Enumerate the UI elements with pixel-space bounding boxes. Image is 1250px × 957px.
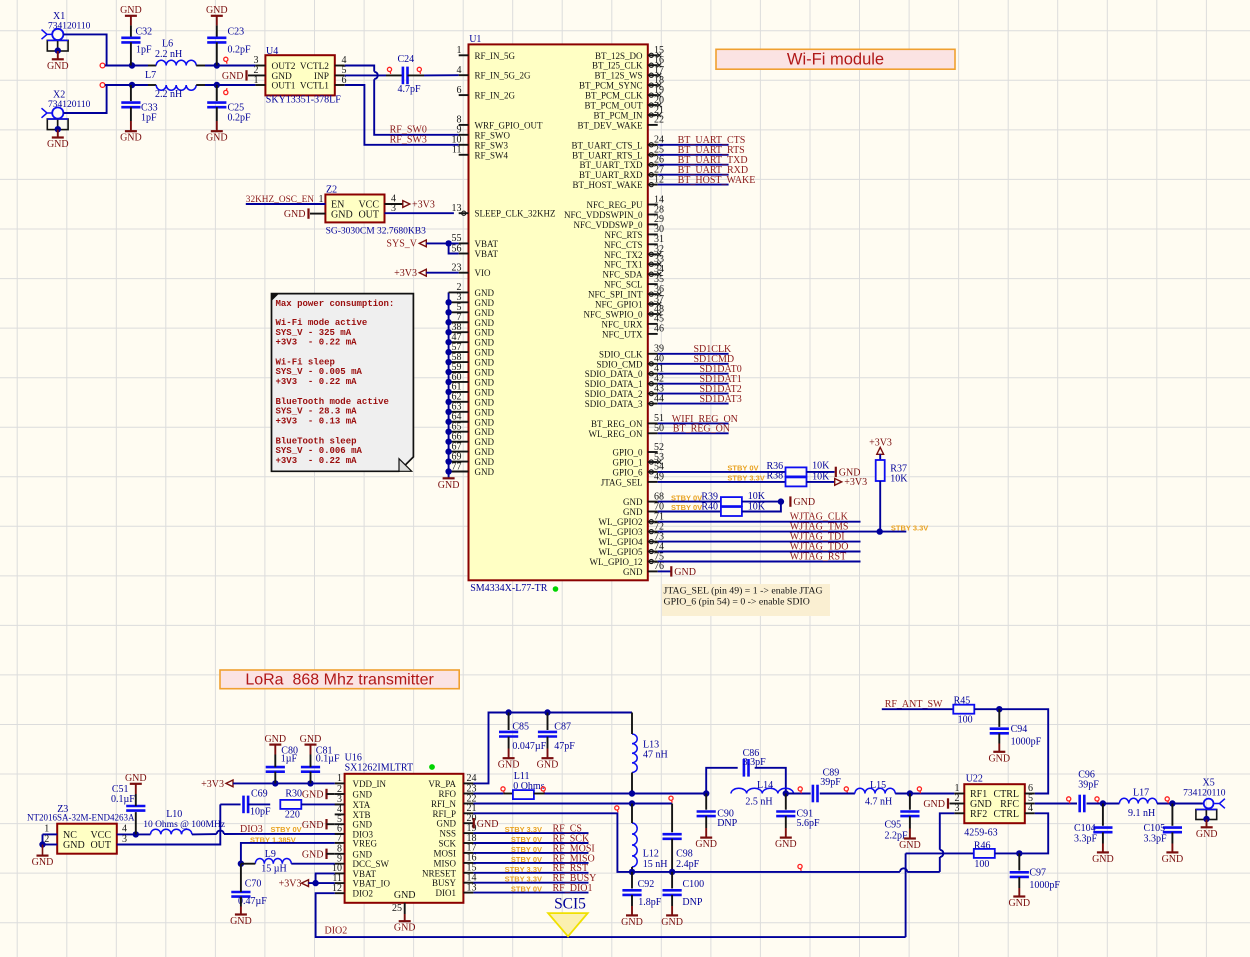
svg-text:WJTAG_RST: WJTAG_RST (790, 552, 846, 563)
capacitor C80 (266, 746, 298, 772)
svg-text:4: 4 (1028, 803, 1033, 814)
U22 pin 6 stub (1025, 783, 1035, 794)
svg-text:DCC_SW: DCC_SW (353, 859, 390, 869)
svg-text:GND: GND (120, 133, 142, 144)
no-ERC mark C105 (1165, 797, 1169, 803)
wire C24 to U1 pin4 (424, 74, 459, 76)
lead C25 bottom (216, 107, 218, 131)
lead C95 top (909, 794, 911, 810)
svg-text:SDIO_DATA_2: SDIO_DATA_2 (585, 389, 643, 399)
junction C95 (907, 790, 913, 796)
junction C87 (544, 709, 550, 715)
no-ERC mark RFI_P elbow (615, 806, 619, 812)
ground below U1 GND bus (438, 478, 460, 491)
svg-text:GND: GND (1008, 898, 1030, 909)
U1 pin 70 GND (623, 501, 664, 517)
ground below C104 (1092, 852, 1114, 865)
Wi-Fi module U1 (469, 34, 648, 594)
wire RFO to L11 (473, 793, 503, 795)
svg-text:10 Ohms @ 100MHz: 10 Ohms @ 100MHz (143, 820, 225, 830)
ground below C91 (775, 838, 797, 851)
resistor R40 (701, 501, 765, 516)
junction C25/rail2 (214, 82, 220, 88)
U1 pin 23 VIO (452, 263, 491, 279)
svg-text:C94: C94 (1011, 724, 1028, 735)
svg-text:GND: GND (284, 209, 306, 220)
U22 pin 5 stub (1025, 793, 1035, 804)
U1 pin 73 WL_GPIO4 (599, 531, 665, 547)
svg-text:+3V3 - 0.13 mA: +3V3 - 0.13 mA (276, 417, 358, 427)
svg-text:BT_DEV_WAKE: BT_DEV_WAKE (578, 120, 643, 130)
svg-text:VREG: VREG (353, 838, 378, 848)
svg-text:GND: GND (899, 840, 921, 851)
lead C24 left (386, 74, 403, 76)
U1 pin 32 NFC_TX2 (604, 244, 664, 260)
U1 pin 55 VBAT (452, 233, 499, 249)
svg-text:NT2016SA-32M-END4263A: NT2016SA-32M-END4263A (27, 813, 135, 823)
svg-text:BT_12S_DO: BT_12S_DO (595, 51, 643, 61)
lead L6 left (148, 65, 156, 67)
wire VCTL2 to RF_SW0 (345, 66, 374, 72)
wire U4 INP to C24 (345, 74, 386, 76)
svg-text:BT_UART_RTS_L: BT_UART_RTS_L (572, 150, 642, 160)
svg-text:NFC_TX1: NFC_TX1 (604, 260, 643, 270)
svg-text:WL_GPIO2: WL_GPIO2 (599, 517, 643, 527)
svg-text:GND: GND (353, 820, 373, 830)
wire JTAG_SEL to R38 (658, 481, 786, 483)
svg-text:BT_PCM_IN: BT_PCM_IN (593, 111, 643, 121)
svg-text:NFC_SDA: NFC_SDA (602, 270, 643, 280)
svg-text:GND: GND (1196, 829, 1218, 840)
inductor L17 (1119, 788, 1157, 819)
wire net SD1DAT3 (658, 403, 729, 405)
U1 pin 35 NFC_SCL (604, 274, 664, 290)
lead L12 bottom (631, 867, 633, 872)
wire DIO3 to U16 (224, 833, 345, 835)
svg-text:C32: C32 (136, 27, 153, 38)
ground at U16 pin5 (302, 819, 327, 831)
Z3 pin 3 wire (117, 804, 221, 845)
ground below C94 (988, 752, 1010, 765)
wire R30 to XTA (301, 803, 344, 805)
svg-text:3: 3 (955, 803, 960, 814)
svg-text:WL_GPIO5: WL_GPIO5 (599, 547, 643, 557)
capacitor C89 (813, 768, 841, 803)
wire L9 to DCC_SW (291, 863, 334, 865)
svg-text:BT_12S_WS: BT_12S_WS (594, 71, 642, 81)
svg-text:WL_GPIO_12: WL_GPIO_12 (590, 557, 643, 567)
ground below U16 (394, 921, 416, 934)
svg-text:GND: GND (475, 328, 495, 338)
ground below C25 (206, 131, 228, 144)
svg-text:GND: GND (988, 753, 1010, 764)
ground at U16 pin 20 (474, 818, 499, 830)
svg-text:BUSY: BUSY (432, 878, 457, 888)
lead C90 top (705, 794, 707, 810)
U1 pin 4 RF_IN_5G_2G (457, 65, 532, 81)
svg-text:OUT: OUT (90, 840, 111, 851)
wire L14 node to C89 (786, 793, 811, 795)
U1 pin 46 NFC_UTX (602, 324, 664, 340)
capacitor C95 (885, 812, 920, 842)
svg-text:BT_REG_ON: BT_REG_ON (591, 419, 643, 429)
svg-text:GND: GND (1092, 854, 1114, 865)
inductor L15 (855, 780, 895, 807)
wire VR_PA rail (473, 713, 632, 784)
ground below C95 (899, 839, 921, 852)
oscillator Z2 (325, 185, 426, 237)
resistor L11 (0 Ohms) (513, 771, 545, 799)
U1 pin 29 NFC_VDDSWP_0 (573, 214, 664, 230)
wire R45 to U22 pin6 (974, 709, 1048, 793)
capacitor C81 (301, 746, 340, 772)
svg-text:R30: R30 (285, 788, 302, 799)
wire X1 to RF rail (63, 34, 106, 65)
junction L12 bottom (629, 869, 635, 875)
svg-text:GND: GND (695, 839, 717, 850)
svg-text:NFC_SPI_INT: NFC_SPI_INT (588, 290, 643, 300)
capacitor C100 (663, 879, 705, 908)
U1 pin 31 NFC_CTS (604, 234, 664, 250)
svg-text:RFI_P: RFI_P (432, 809, 456, 819)
resistor R38 (767, 471, 831, 487)
ground at R39/R40 (790, 496, 815, 508)
junction C51 (133, 831, 139, 837)
svg-text:GND: GND (394, 890, 416, 901)
wire net WJTAG_TDI (658, 541, 861, 543)
U16 right pins 24-13 (422, 773, 477, 898)
U22 pin 3 stub (954, 803, 964, 814)
U1 left GND bus wire (448, 292, 450, 478)
svg-text:BT_UART_TXD: BT_UART_TXD (580, 160, 643, 170)
ground below C100 (661, 915, 683, 928)
svg-text:GND: GND (475, 318, 495, 328)
svg-text:+3V3 - 0.22 mA: +3V3 - 0.22 mA (276, 338, 358, 348)
capacitor C94 (990, 724, 1042, 748)
wire +3V3 to VIO (426, 272, 458, 274)
svg-text:JTAG_SEL (pin 49) = 1 -> enabl: JTAG_SEL (pin 49) = 1 -> enable JTAG (664, 585, 823, 596)
svg-text:GND: GND (475, 457, 495, 467)
lead C95 bottom (909, 816, 911, 838)
svg-text:GND: GND (475, 427, 495, 437)
net label SYS_V (386, 239, 426, 250)
lead L13 bottom (631, 773, 633, 794)
svg-text:+3V3: +3V3 (201, 779, 224, 790)
U1 pin 74 WL_GPIO5 (599, 541, 665, 557)
wire net SD1CMD (658, 363, 729, 365)
U1 pin 39 SDIO_CLK (599, 344, 664, 360)
inductor L14 (731, 780, 794, 807)
wire +3V3 to VBAT_IO (309, 882, 335, 884)
U1 pin 15 BT_12S_DO (595, 45, 664, 61)
capacitor C90 (697, 808, 738, 829)
lead C92 top (631, 872, 633, 889)
svg-text:NFC_TX2: NFC_TX2 (604, 250, 643, 260)
ground at X5 (1196, 827, 1218, 840)
lead C105 top (1171, 804, 1173, 826)
wire X2 to RF rail 2 (63, 85, 106, 113)
capacitor C25 (207, 103, 251, 124)
wire RFI_N (473, 803, 672, 805)
wire pin70 to R40 (658, 511, 721, 513)
inductor L13 (632, 734, 668, 773)
ground at U4 pin 2 (222, 70, 247, 82)
svg-text:Wi-Fi module: Wi-Fi module (787, 50, 884, 68)
lead C91 bottom (785, 816, 787, 838)
svg-text:L17: L17 (1133, 788, 1149, 799)
svg-text:DNP: DNP (717, 818, 737, 829)
wire rail2 left (105, 84, 148, 86)
Z2 pin 3 / OUT wire to U1 pin13 (385, 203, 454, 214)
lead C51 top (135, 784, 137, 806)
svg-text:46: 46 (654, 324, 664, 335)
svg-text:LoRa 868 Mhz transmitter: LoRa 868 Mhz transmitter (245, 671, 434, 688)
svg-text:GND: GND (63, 840, 85, 851)
wire net RF_BUSY (473, 882, 588, 884)
svg-text:4: 4 (122, 824, 127, 835)
svg-text:RF_IN_5G_2G: RF_IN_5G_2G (475, 71, 532, 81)
resistor R36 (767, 461, 831, 477)
svg-text:+3V3 - 0.22 mA: +3V3 - 0.22 mA (276, 456, 358, 466)
U1 pin 34 NFC_SDA (602, 264, 664, 280)
wire C89 to L15 (820, 793, 855, 795)
ground below C33 (120, 131, 142, 144)
antenna connector X1 (42, 11, 91, 59)
wire L15 to U22 pin1 (895, 793, 954, 795)
ground below C87 (537, 758, 559, 771)
wire net SD1DAT2 (658, 393, 729, 395)
svg-text:SD1DAT3: SD1DAT3 (700, 394, 742, 405)
svg-text:VIO: VIO (475, 268, 491, 278)
crystal oscillator Z3 (27, 804, 135, 854)
junction L14 right node (783, 790, 789, 796)
svg-text:STBY 0V: STBY 0V (511, 885, 542, 894)
wire L11 to L13 node (545, 793, 707, 795)
wire RF_ANT_SW to R45 (882, 708, 954, 710)
lead L12 top (631, 804, 633, 824)
lead C23 top (216, 16, 218, 38)
svg-text:GND: GND (438, 480, 460, 491)
lead C104 bottom (1102, 832, 1104, 852)
wire +3V3 to VDD_IN (233, 782, 335, 784)
U16 left pins 1-12 (332, 773, 390, 899)
wire net WJTAG_CLK (658, 521, 861, 523)
antenna connector X5 (1183, 777, 1226, 827)
resistor R30 (280, 788, 302, 820)
inductor L6 (155, 39, 196, 66)
wire U16 pin25 to GND (404, 914, 406, 921)
ground at X1 (47, 59, 69, 72)
inductor L10 (143, 809, 225, 835)
svg-text:RFI_N: RFI_N (431, 799, 457, 809)
resistor R37 (876, 460, 909, 485)
svg-text:SDIO_CLK: SDIO_CLK (599, 349, 643, 359)
U4 pin 1 stub (254, 75, 266, 86)
svg-text:GND: GND (498, 760, 520, 771)
svg-text:2: 2 (337, 784, 342, 795)
svg-text:SLEEP_CLK_32KHZ: SLEEP_CLK_32KHZ (475, 209, 556, 219)
svg-text:RF2: RF2 (970, 809, 987, 820)
svg-text:L10: L10 (166, 809, 182, 820)
svg-text:0.2pF: 0.2pF (228, 113, 252, 124)
Z3 pin 1 wire (43, 824, 58, 835)
U1 pin 49 JTAG_SEL (601, 472, 664, 488)
U4 pin 5 stub (335, 65, 347, 76)
svg-text:GND: GND (125, 773, 147, 784)
svg-text:BT_I25_CLK: BT_I25_CLK (592, 61, 643, 71)
svg-text:CTRL: CTRL (993, 809, 1019, 820)
wire net WJTAG_TDO (658, 551, 861, 553)
svg-text:GND: GND (674, 567, 696, 578)
U1 pin 6 RF_IN_2G (457, 85, 516, 101)
svg-text:DIO1: DIO1 (436, 888, 457, 898)
lead C98 bottom (671, 839, 673, 872)
svg-text:0 Ohms: 0 Ohms (513, 781, 545, 792)
wire C96 to L17 (1087, 803, 1120, 805)
junction C98 bottom (669, 869, 675, 875)
svg-text:1: 1 (457, 45, 462, 56)
svg-text:STBY 0V: STBY 0V (511, 855, 542, 864)
wire net BT_UART_RXD (658, 174, 729, 176)
no-ERC mark C96 left (1067, 797, 1071, 803)
wire net SD1DAT1 (658, 383, 729, 385)
junction C104 (1100, 800, 1106, 806)
wire net SD1CLK (658, 353, 729, 355)
no-ERC mark C24 right (417, 67, 421, 74)
no-ERC mark L11 left (501, 787, 505, 793)
svg-text:C70: C70 (245, 879, 262, 890)
lead C81 top (310, 745, 312, 768)
svg-text:C69: C69 (251, 788, 268, 799)
svg-text:GND: GND (475, 377, 495, 387)
U16 pin5 gnd wire (327, 823, 335, 825)
svg-text:NSS: NSS (439, 829, 456, 839)
U1 pin 75 WL_GPIO_12 (590, 551, 665, 567)
svg-text:R45: R45 (954, 696, 971, 707)
wire net RF_MOSI (473, 852, 588, 854)
U1 pin 40 SDIO_CMD (596, 354, 664, 370)
svg-text:STBY 3.3V: STBY 3.3V (505, 865, 542, 874)
junction C80 (272, 780, 278, 786)
wire pin76 to GND (658, 570, 671, 572)
wire net WJTAG_TMS (658, 531, 907, 533)
wire hop over C24 row (374, 72, 378, 79)
wire hop RFI_P over R46 drop (900, 868, 907, 872)
wire C86 loop right (755, 768, 786, 794)
svg-text:100: 100 (974, 859, 989, 870)
svg-text:39pF: 39pF (1078, 779, 1099, 790)
svg-text:SYS_V - 0.005 mA: SYS_V - 0.005 mA (276, 367, 363, 377)
svg-text:GND: GND (623, 497, 643, 507)
svg-text:X2: X2 (53, 90, 65, 101)
svg-text:RF_SWO: RF_SWO (475, 130, 511, 140)
lead C24 right (408, 74, 425, 76)
svg-text:GND: GND (477, 819, 499, 830)
svg-text:2.5 nH: 2.5 nH (745, 796, 772, 807)
antenna connector X2 (42, 90, 91, 138)
capacitor C24 (398, 54, 422, 95)
svg-text:C23: C23 (228, 27, 245, 38)
wire GPIO_6 to R36 (658, 471, 786, 473)
svg-text:VBAT: VBAT (475, 239, 499, 249)
capacitor C104 (1074, 823, 1113, 844)
junction L13/rail (629, 790, 635, 796)
svg-text:10K: 10K (812, 471, 830, 482)
no-ERC mark rail1 end (100, 63, 105, 68)
U1 pin 36 NFC_SPI_INT (588, 284, 664, 300)
svg-text:4.7 nH: 4.7 nH (865, 796, 892, 807)
U1 pin 21 BT_PCM_IN (593, 105, 664, 121)
U16 pin2 gnd wire (327, 793, 335, 795)
lead C23 bottom (216, 42, 218, 65)
svg-text:+3V3: +3V3 (279, 878, 302, 889)
svg-text:WRF_GPIO_OUT: WRF_GPIO_OUT (475, 120, 544, 130)
U1 pin 12 BT_HOST_WAKE (573, 174, 665, 190)
svg-text:GPIO_6: GPIO_6 (612, 467, 643, 477)
no-ERC mark C89 left (798, 787, 802, 793)
RF switch U22 (964, 774, 1025, 839)
svg-text:SCI5: SCI5 (554, 896, 586, 913)
resistor R46 (974, 840, 995, 870)
no-ERC mark rail2 end (100, 83, 105, 88)
ground above C51 (125, 773, 147, 784)
svg-text:L7: L7 (145, 70, 156, 81)
svg-text:BlueTooth mode active: BlueTooth mode active (276, 397, 389, 407)
inductor L7 (145, 70, 196, 100)
svg-text:1pF: 1pF (136, 45, 152, 56)
svg-text:R46: R46 (974, 840, 991, 851)
lead C105 bottom (1171, 832, 1173, 852)
wire RFC to C96 (1035, 803, 1077, 805)
U1 pin 16 BT_I25_CLK (592, 55, 664, 71)
svg-text:GND: GND (437, 819, 457, 829)
junction C33/rail2 (129, 82, 135, 88)
U22 pin 4 stub (1025, 803, 1035, 814)
U1 pin 42 SDIO_DATA_1 (585, 374, 664, 390)
svg-text:NRESET: NRESET (422, 868, 457, 878)
svg-text:GND: GND (475, 437, 495, 447)
svg-text:GND: GND (120, 5, 142, 16)
ground at Z3 (32, 856, 54, 869)
U1 pin 13 SLEEP_CLK_32KHZ (452, 203, 556, 219)
svg-text:GND: GND (47, 61, 69, 72)
capacitor C87 (538, 721, 575, 752)
svg-text:STBY 3.3V: STBY 3.3V (505, 825, 542, 834)
wire net BT_UART_CTS (658, 144, 729, 146)
svg-text:GND: GND (475, 407, 495, 417)
lead C104 top (1102, 804, 1104, 826)
wire R38 to +3V3 (807, 481, 835, 483)
svg-text:RF_SW3: RF_SW3 (390, 135, 427, 146)
ground above C81 (300, 734, 322, 745)
note: max power consumption (272, 294, 414, 472)
no-ERC mark L11 right (541, 787, 545, 793)
note: JTAG_SEL / GPIO_6 (662, 584, 830, 616)
U1 pin 28 NFC_VDDSWPIN_0 (564, 204, 664, 220)
svg-text:2.4pF: 2.4pF (676, 859, 700, 870)
U16 pin8 gnd wire (327, 853, 335, 855)
ground at X2 (47, 138, 69, 151)
svg-text:RF_IN_5G: RF_IN_5G (475, 51, 516, 61)
ground below C97 (1008, 897, 1030, 910)
svg-text:INP: INP (314, 72, 329, 82)
U1 pin 33 NFC_TX1 (604, 254, 664, 270)
svg-text:SDIO_CMD: SDIO_CMD (596, 359, 643, 369)
svg-text:3.3pF: 3.3pF (743, 757, 767, 768)
svg-text:GND: GND (661, 917, 683, 928)
wire Z3 OUT to C69 (220, 803, 240, 805)
svg-text:GND: GND (475, 298, 495, 308)
